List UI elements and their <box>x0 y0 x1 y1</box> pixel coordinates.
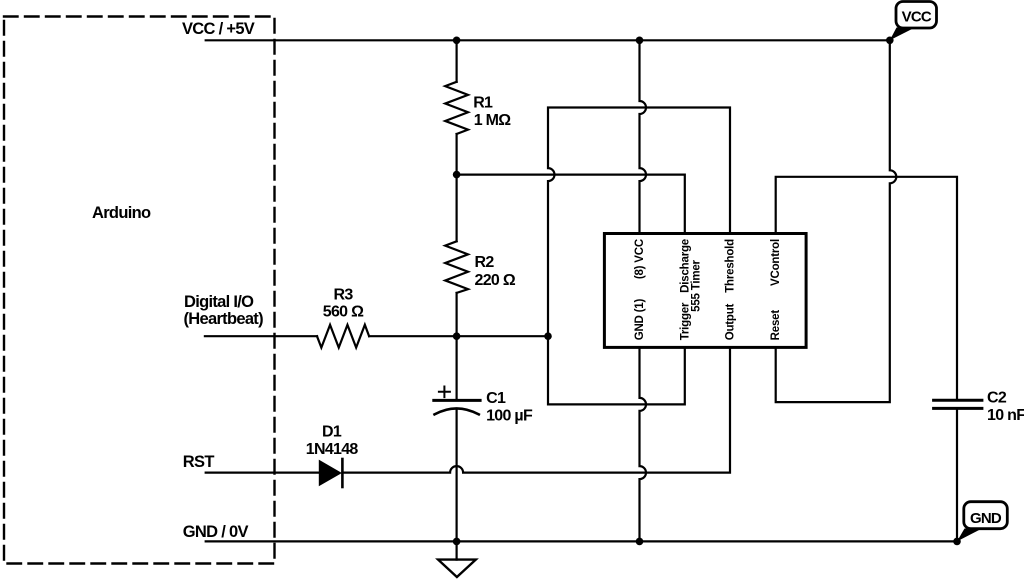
wire VControl pin5 up, right to C2 <box>776 177 957 400</box>
svg-text:C2: C2 <box>987 390 1007 407</box>
wire R1 top stub <box>456 40 458 82</box>
svg-text:RST: RST <box>183 453 215 471</box>
wire R1 bottom to junction <box>456 134 458 175</box>
wire GND rail (bottom) <box>206 540 957 542</box>
wire R1/R2 junction to Discharge pin <box>457 175 685 234</box>
capacitor C1 plates <box>434 399 480 402</box>
wire VCC rail (top) <box>206 39 890 41</box>
node C2/GND flag on rail <box>953 538 961 546</box>
svg-text:1N4148: 1N4148 <box>306 441 359 458</box>
op-amp/IC U1 555 timer box <box>604 234 806 348</box>
svg-text:C1: C1 <box>486 390 506 407</box>
svg-text:(8) VCC: (8) VCC <box>634 239 646 279</box>
VCC flag <box>890 28 915 41</box>
node VCC pin on VCC rail <box>636 37 644 45</box>
wire C1 bottom to GND rail <box>456 410 458 541</box>
svg-text:GND / 0V: GND / 0V <box>183 523 249 541</box>
wire C2 bottom stub <box>956 408 958 541</box>
svg-text:Arduino: Arduino <box>92 204 151 222</box>
svg-text:220 Ω: 220 Ω <box>475 272 516 289</box>
resistor R3 <box>317 325 369 348</box>
svg-text:Discharge: Discharge <box>679 239 691 293</box>
resistor R2 <box>445 241 468 293</box>
node R1/R2 junction <box>453 171 461 179</box>
svg-text:Output: Output <box>725 303 737 340</box>
wire R3 to trigger junction <box>369 335 548 337</box>
svg-text:Threshold: Threshold <box>725 239 737 293</box>
resistor R1 <box>445 82 468 134</box>
wire R2 top stub <box>456 175 458 242</box>
wire Threshold net: pin6 up, left, down (hop), to trigger rail, to Trigger pin2 <box>548 108 730 405</box>
C1 plus sign <box>439 387 450 398</box>
wire diode to Output pin3 with hop over C1 wire <box>342 347 730 472</box>
ground symbol <box>456 541 458 559</box>
svg-text:1 MΩ: 1 MΩ <box>474 112 512 129</box>
wire VCC pin8 vertical with hops <box>640 40 647 233</box>
capacitor C2 plates <box>934 399 982 402</box>
GND flag <box>957 529 982 542</box>
wire VCC drop right side with hop over VControl wire, to Reset pin <box>776 40 897 402</box>
svg-text:VCC / +5V: VCC / +5V <box>182 20 255 38</box>
svg-text:100 µF: 100 µF <box>486 408 533 425</box>
node C1/ground rail <box>453 538 461 546</box>
svg-text:GND (1): GND (1) <box>634 299 646 341</box>
svg-text:Reset: Reset <box>770 310 782 341</box>
wire C1 top stub <box>456 336 458 399</box>
svg-text:VControl: VControl <box>770 239 782 286</box>
svg-text:R1: R1 <box>473 95 493 112</box>
Arduino dashed boundary box <box>4 17 275 564</box>
node GND pin on rail <box>636 538 644 546</box>
svg-text:10 nF: 10 nF <box>987 407 1024 424</box>
svg-text:Trigger: Trigger <box>679 302 691 340</box>
wire GND pin1 vertical with hops <box>640 347 647 541</box>
node R2/R3/C1 junction <box>453 332 461 340</box>
svg-text:R2: R2 <box>475 254 495 271</box>
svg-text:560 Ω: 560 Ω <box>323 304 364 321</box>
node trigger/R3 junction <box>544 332 552 340</box>
node R1 top on VCC rail <box>453 37 461 45</box>
svg-text:(Heartbeat): (Heartbeat) <box>184 310 264 328</box>
diode D1 body <box>319 461 341 486</box>
svg-text:GND: GND <box>970 510 1002 527</box>
svg-text:R3: R3 <box>333 286 353 303</box>
node VCC flag corner <box>886 37 894 45</box>
svg-text:555 Timer: 555 Timer <box>691 259 703 311</box>
wire R2 bottom to heartbeat junction <box>456 293 458 336</box>
svg-text:D1: D1 <box>322 423 342 440</box>
diode D1 cathode bar <box>341 459 344 487</box>
wire RST lead to diode <box>206 472 320 474</box>
wire Digital I/O heartbeat lead <box>205 335 317 337</box>
svg-text:Digital I/O: Digital I/O <box>184 293 254 311</box>
svg-text:VCC: VCC <box>902 9 932 26</box>
